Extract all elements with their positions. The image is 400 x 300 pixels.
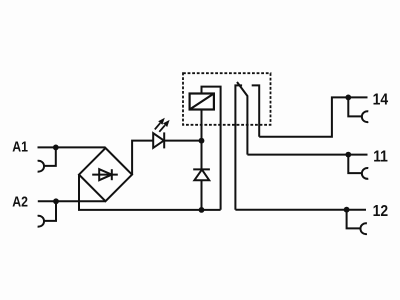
bridge diode cathode bar xyxy=(111,169,113,180)
svg-text:11: 11 xyxy=(373,148,388,166)
node terminal 14 dot xyxy=(345,95,351,101)
node bottom rail junction xyxy=(199,207,205,213)
svg-text:14: 14 xyxy=(373,91,389,109)
terminal A1 clamp hook xyxy=(38,161,44,172)
terminal 11 clamp hook xyxy=(362,168,368,179)
relay dashed enclosure xyxy=(183,73,271,125)
wire A1 clamp drop xyxy=(44,147,56,166)
terminal A2 clamp hook xyxy=(38,216,44,227)
node terminal 11 dot xyxy=(345,152,351,158)
bridge rectifier outline xyxy=(79,148,132,201)
wire terminal 14 clamp drop xyxy=(348,97,362,116)
wire A2 clamp drop xyxy=(44,201,56,221)
node A1 junction dot xyxy=(53,145,59,151)
wire coil bottom lead xyxy=(201,110,203,141)
wire LED to coil node xyxy=(164,140,201,142)
LED D1 cathode bar xyxy=(163,132,165,148)
relay contact fixed pole right xyxy=(252,85,260,136)
freewheel diode triangle xyxy=(194,170,209,181)
bridge diode triangle xyxy=(99,169,112,180)
node A2 junction dot xyxy=(53,198,59,204)
svg-text:A1: A1 xyxy=(12,138,28,154)
bridge diode lead line xyxy=(92,174,118,176)
relay coil K1 xyxy=(190,94,214,110)
LED emission arrow 2 xyxy=(159,120,169,132)
wire freewheel branch xyxy=(201,141,203,210)
wire bridge positive riser to LED xyxy=(132,141,153,175)
wire blade to terminal 11 xyxy=(247,154,367,156)
wire A1 to bridge top xyxy=(38,146,106,148)
node coil-LED junction xyxy=(199,138,205,144)
wire right pole to terminal 14 xyxy=(259,97,367,136)
wire A2 to bridge bottom xyxy=(38,200,106,202)
svg-text:A2: A2 xyxy=(12,193,28,209)
relay contact blade xyxy=(237,82,247,155)
LED emission arrow 1 xyxy=(155,118,165,130)
wire contact to terminal 12 xyxy=(235,209,366,211)
relay contact fixed pole left xyxy=(235,85,242,209)
node terminal 12 dot xyxy=(344,207,350,213)
wire bridge negative rail xyxy=(79,175,221,210)
svg-text:12: 12 xyxy=(373,202,388,220)
wire terminal 12 clamp drop xyxy=(347,210,361,229)
freewheel diode cathode bar xyxy=(193,168,210,170)
wire terminal 11 clamp drop xyxy=(348,155,362,174)
terminal 12 clamp hook xyxy=(360,223,366,234)
wire coil top loop xyxy=(202,87,221,210)
LED D1 triangle xyxy=(153,133,164,148)
terminal 14 clamp hook xyxy=(362,111,368,122)
